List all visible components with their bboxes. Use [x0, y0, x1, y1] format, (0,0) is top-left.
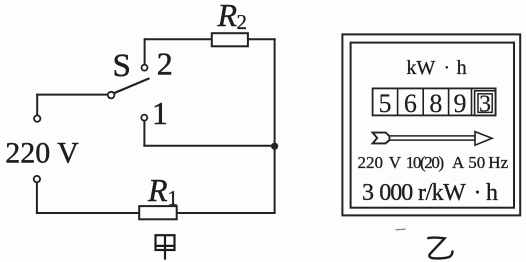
wire left lower vertical — [36, 183, 38, 214]
rotation arrow head — [475, 132, 492, 146]
switch S pivot circle — [108, 92, 115, 99]
svg-text:220: 220 — [358, 153, 384, 172]
svg-text:000: 000 — [379, 180, 413, 206]
svg-text:·: · — [444, 57, 451, 79]
rotation arrow shaft — [390, 136, 475, 140]
label 3 000 r/kW·h — [362, 180, 498, 206]
svg-text:3: 3 — [362, 180, 374, 206]
switch S blade — [114, 79, 149, 94]
stray scan mark — [396, 228, 405, 231]
resistor R2 — [212, 33, 248, 46]
svg-text:R: R — [147, 172, 168, 208]
wire right vertical — [274, 39, 276, 213]
svg-text:5: 5 — [379, 89, 392, 118]
svg-text:R: R — [217, 0, 238, 33]
label 220 V 10(20) A 50 Hz — [358, 153, 509, 172]
inner frame around digit 3 (outer line) — [475, 91, 496, 116]
wire contact-1 drop — [143, 121, 145, 146]
svg-text:Hz: Hz — [488, 153, 508, 172]
rotation arrow tail — [373, 133, 390, 144]
wire left upper vertical — [36, 95, 38, 115]
wire bottom (R1 branch) — [37, 212, 275, 214]
svg-text:9: 9 — [454, 89, 467, 118]
wire pivot to left — [37, 94, 108, 96]
svg-text:50: 50 — [468, 153, 485, 172]
svg-text:1: 1 — [168, 186, 179, 210]
label 甲 (drawn strokes) — [156, 235, 175, 259]
svg-text:A: A — [452, 153, 465, 172]
switch contact 2 — [142, 65, 148, 71]
svg-text:3: 3 — [479, 91, 491, 117]
inner frame around digit 3 (inner line) — [478, 94, 492, 113]
register cell dividers — [398, 88, 472, 115]
register digit boxes — [373, 88, 496, 115]
svg-text:6: 6 — [404, 89, 417, 118]
meter outer box — [342, 34, 520, 215]
wire contact-1 branch horizontal — [144, 145, 274, 147]
switch contact 1 — [141, 115, 147, 121]
svg-text:2: 2 — [237, 10, 248, 34]
terminal upper (220 V) — [34, 115, 40, 121]
svg-text:2: 2 — [157, 46, 173, 82]
svg-text:h: h — [457, 57, 467, 79]
svg-text:10(20): 10(20) — [406, 153, 444, 172]
svg-text:1: 1 — [152, 95, 168, 131]
svg-text:·: · — [474, 180, 482, 206]
svg-text:r/kW: r/kW — [418, 180, 466, 206]
svg-text:kW: kW — [406, 57, 435, 79]
svg-text:h: h — [486, 180, 498, 206]
svg-text:8: 8 — [429, 89, 442, 118]
svg-text:V: V — [389, 153, 402, 172]
label 乙 (drawn stroke) — [428, 238, 452, 259]
svg-text:S: S — [113, 48, 131, 84]
svg-text:220 V: 220 V — [5, 136, 79, 169]
resistor R1 — [139, 206, 177, 219]
terminal lower (220 V) — [34, 176, 40, 182]
wire top (R2 branch) — [145, 38, 275, 40]
wire contact-2 riser — [144, 39, 146, 64]
meter inner box — [351, 43, 514, 208]
node junction dot — [271, 143, 278, 150]
